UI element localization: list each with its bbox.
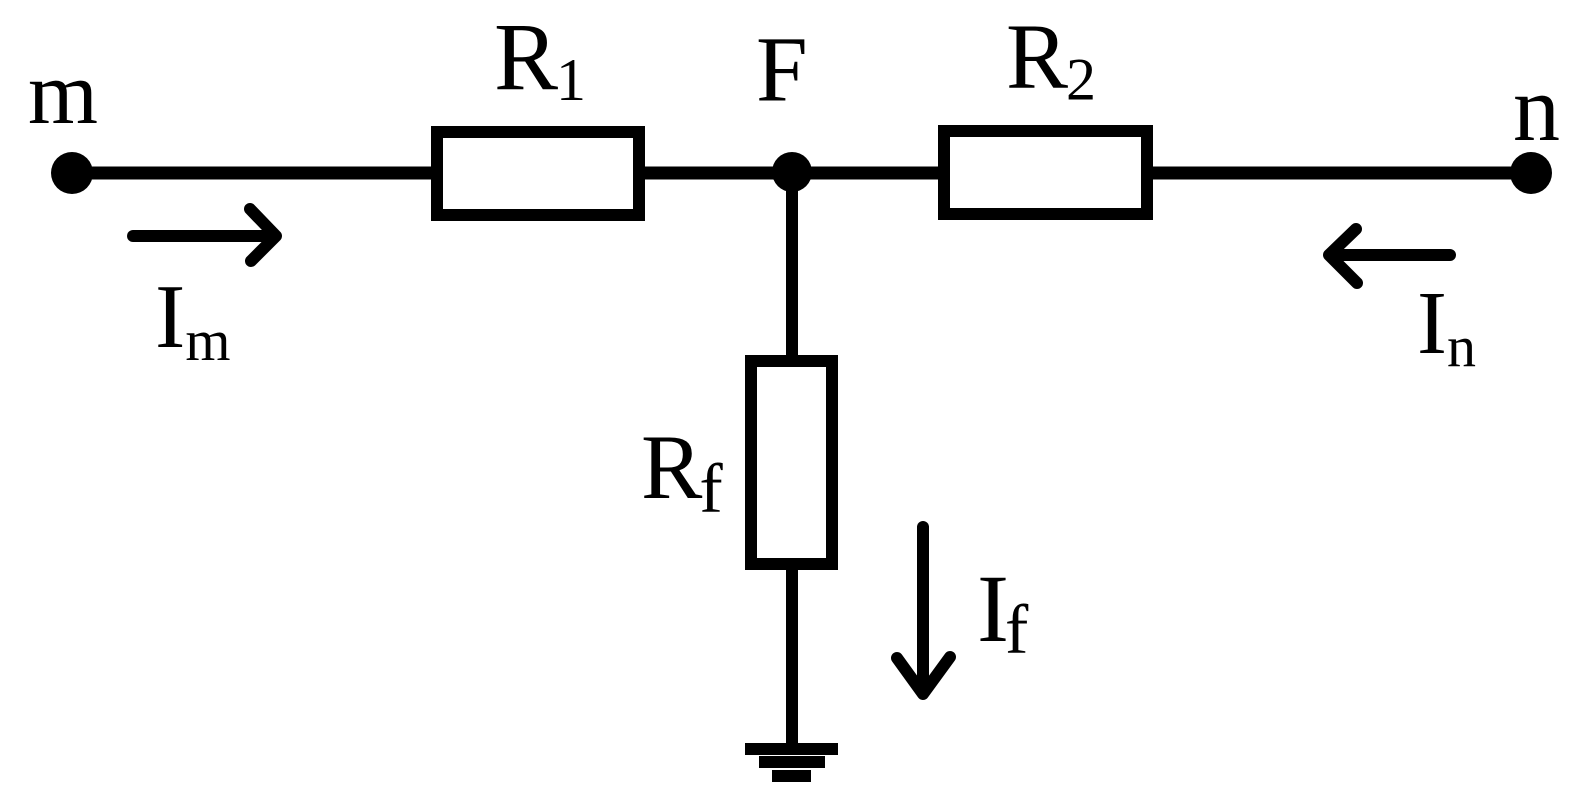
- svg-text:n: n: [1513, 57, 1560, 161]
- current arrow In: [1329, 229, 1450, 283]
- svg-text:R1: R1: [494, 3, 586, 113]
- wire: node F down to Rf top terminal: [786, 173, 798, 361]
- node m (terminal dot): [51, 152, 93, 194]
- svg-text:F: F: [756, 19, 808, 122]
- node F (junction dot): [772, 152, 812, 192]
- svg-text:Rf: Rf: [641, 416, 723, 528]
- svg-text:If: If: [977, 555, 1029, 669]
- node n (terminal dot): [1510, 152, 1552, 194]
- current arrow Im: [133, 209, 276, 261]
- wire: node m to R1 left terminal: [72, 167, 437, 180]
- wire: R2 right terminal to node n: [1147, 167, 1531, 180]
- current arrow If: [897, 527, 950, 694]
- resistor Rf: [751, 361, 832, 564]
- resistor R1: [437, 132, 639, 215]
- wire: node F to R2 left terminal: [792, 167, 944, 180]
- wire: R1 right terminal to node F: [639, 167, 792, 180]
- wire: Rf bottom terminal to ground: [786, 564, 798, 749]
- ground: [745, 743, 838, 782]
- svg-text:R2: R2: [1006, 6, 1096, 113]
- resistor R2: [944, 131, 1147, 214]
- svg-text:In: In: [1417, 274, 1476, 379]
- svg-text:m: m: [28, 44, 98, 143]
- svg-text:Im: Im: [155, 266, 230, 373]
